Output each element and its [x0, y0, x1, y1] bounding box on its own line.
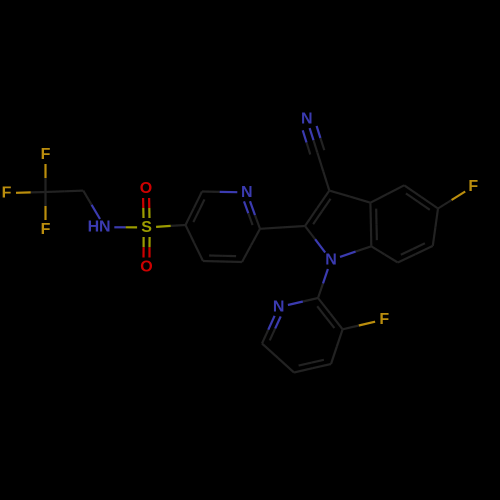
- svg-text:O: O: [140, 180, 152, 197]
- svg-text:O: O: [140, 259, 152, 276]
- svg-text:N: N: [99, 219, 111, 236]
- svg-text:H: H: [88, 219, 100, 236]
- svg-text:N: N: [273, 299, 285, 316]
- svg-text:N: N: [301, 111, 313, 128]
- svg-text:N: N: [241, 184, 253, 201]
- svg-text:N: N: [325, 252, 337, 269]
- svg-text:F: F: [468, 178, 478, 195]
- svg-text:S: S: [141, 219, 152, 236]
- svg-text:F: F: [41, 221, 51, 238]
- svg-text:F: F: [2, 185, 12, 202]
- svg-text:F: F: [379, 311, 389, 328]
- svg-text:F: F: [41, 146, 51, 163]
